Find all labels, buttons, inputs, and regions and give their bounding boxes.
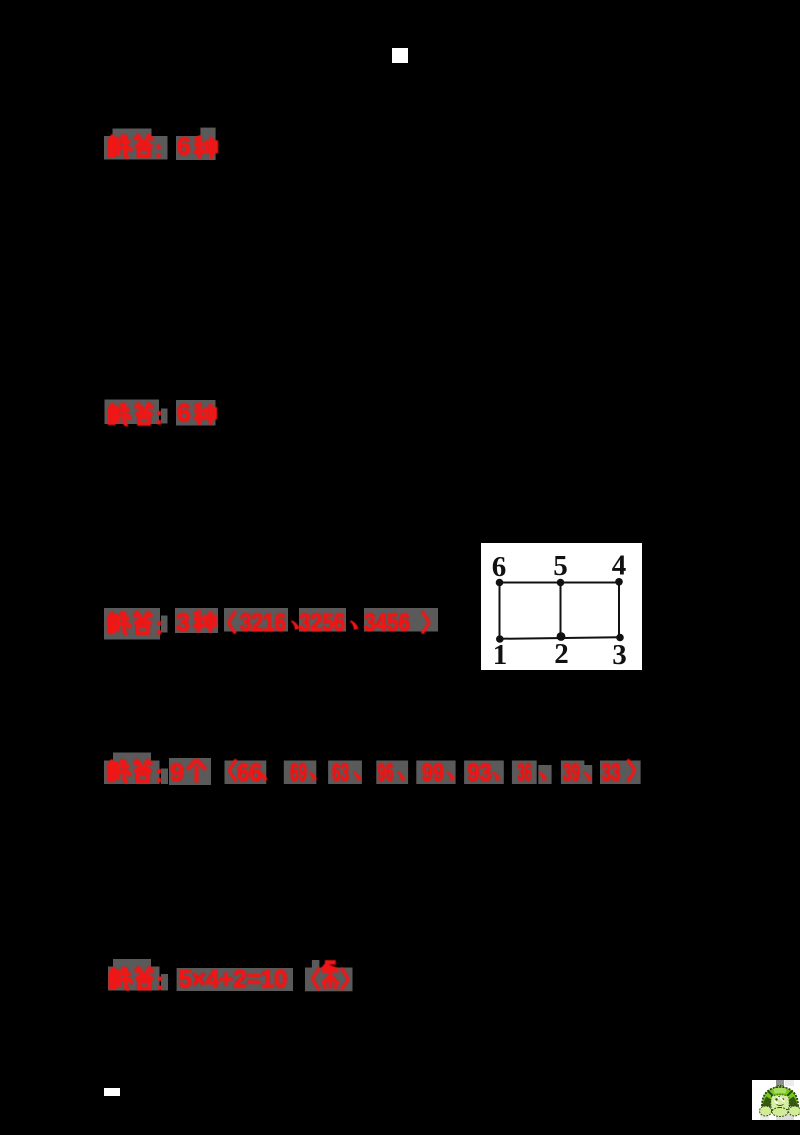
- answer line 2: 解答：6种: [100, 392, 240, 436]
- svg-text:3: 3: [612, 639, 627, 670]
- svg-text:93: 93: [468, 759, 492, 787]
- turtle: [760, 1086, 800, 1117]
- dots: [496, 578, 624, 643]
- answer line 5: 解答：2×4+2=10（条）: [100, 954, 370, 1000]
- svg-text:3256: 3256: [299, 609, 345, 637]
- svg-text:3: 3: [176, 609, 190, 637]
- labels: [492, 550, 627, 672]
- svg-text:6: 6: [492, 551, 507, 583]
- answer line 4: 解答：9个（66、69、63、96、99、93、36、39、33）: [100, 752, 645, 792]
- svg-text:69: 69: [290, 759, 307, 787]
- answer line 3: 解答：3种（3216、3256、3456）: [100, 602, 445, 644]
- svg-text:96: 96: [378, 759, 394, 787]
- diagram white box: two squares with numbered dots: [481, 543, 642, 670]
- svg-text:36: 36: [518, 759, 532, 787]
- svg-text:2: 2: [554, 638, 569, 670]
- svg-text:3216: 3216: [240, 609, 286, 637]
- glyph definitions (bold red CJK stroke approximations, 20x22 box): [0, 0, 2, 2]
- svg-text:66: 66: [237, 759, 262, 787]
- turtle icon bottom right: [752, 1080, 800, 1120]
- svg-text:5: 5: [553, 550, 568, 582]
- svg-text:6: 6: [177, 133, 191, 161]
- svg-text:63: 63: [332, 759, 349, 787]
- svg-text:33: 33: [602, 759, 621, 787]
- svg-text:39: 39: [563, 759, 580, 787]
- white square top center: [392, 48, 408, 63]
- svg-text:1: 1: [493, 639, 508, 670]
- grid lines: [500, 582, 620, 639]
- svg-text:5×4+2=10: 5×4+2=10: [178, 965, 287, 993]
- svg-text:99: 99: [422, 759, 444, 787]
- bottom left white dash: [104, 1088, 120, 1096]
- svg-text:6: 6: [177, 400, 191, 428]
- svg-text:3456: 3456: [364, 609, 410, 637]
- svg-text:9: 9: [170, 759, 184, 787]
- svg-text:4: 4: [612, 550, 627, 582]
- answer line 1: 解答：6种: [100, 124, 240, 168]
